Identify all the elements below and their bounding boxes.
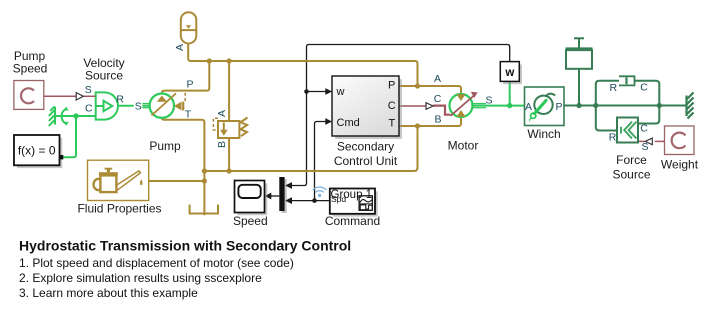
Pump Speed constant block — [14, 81, 44, 110]
wire loop left upper to damper R — [596, 81, 619, 106]
wire Command output to mux — [292, 200, 330, 202]
wire pump T down to tank — [162, 118, 205, 216]
svg-text:C: C — [640, 123, 648, 135]
node loop right junction — [657, 103, 662, 108]
oil can icon — [94, 171, 141, 192]
svg-text:Control Unit: Control Unit — [334, 154, 398, 168]
Speed scope — [235, 181, 268, 216]
wire mux output to Speed scope — [271, 195, 279, 197]
svg-text:A: A — [216, 110, 228, 117]
node pump P rail junction — [207, 58, 212, 63]
motor (variable-displacement) — [433, 92, 486, 117]
svg-text:C: C — [640, 82, 648, 94]
wire velocity source R to pump S — [118, 105, 150, 107]
svg-text:w: w — [504, 67, 514, 79]
svg-text:A: A — [434, 73, 441, 85]
svg-text:Winch: Winch — [527, 127, 560, 141]
node loop left junction — [593, 103, 598, 108]
node Cmd junction — [312, 198, 317, 203]
valve (pressure relief) — [218, 118, 248, 139]
svg-text:P: P — [555, 101, 562, 113]
wire SCU T output to motor B — [399, 117, 461, 126]
svg-text:S: S — [485, 95, 492, 107]
mass block — [566, 38, 593, 69]
wire W sensor to w input and mux — [292, 45, 510, 186]
svg-text:B: B — [434, 114, 441, 126]
svg-text:Speed: Speed — [233, 214, 268, 228]
node fluid properties junction — [202, 178, 207, 183]
wire motor S to winch A — [472, 105, 524, 107]
node w junction — [304, 89, 309, 94]
wire Cmd from Command to SCU — [315, 122, 326, 201]
damper — [619, 76, 635, 85]
wire valve B down to T rail — [228, 138, 230, 171]
svg-text:C: C — [388, 100, 396, 112]
wire loop left lower to force source R — [596, 106, 617, 131]
mux — [282, 179, 287, 213]
W sensor block — [500, 62, 522, 85]
svg-text:R: R — [609, 132, 617, 144]
node W shaft junction — [507, 103, 512, 108]
svg-text:A: A — [174, 44, 186, 51]
svg-text:Force: Force — [616, 153, 647, 167]
wire SCU P output to motor A — [399, 86, 461, 94]
node valve A rail junction — [227, 58, 232, 63]
node C junction — [73, 113, 78, 118]
svg-text:Cmd: Cmd — [337, 117, 360, 129]
pump (variable-displacement) — [141, 91, 186, 118]
Command signal editor — [330, 189, 378, 217]
svg-text:Hydrostatic Transmission with: Hydrostatic Transmission with Secondary … — [19, 237, 351, 253]
arrow into SCU Cmd — [325, 118, 332, 125]
tank (reservoir) — [190, 205, 218, 214]
node valve B rail junction — [227, 168, 232, 173]
node pump T rail junction — [202, 168, 207, 173]
svg-text:Weight: Weight — [661, 158, 699, 172]
svg-text:1. Plot speed and displacement: 1. Plot speed and displacement of motor … — [19, 256, 294, 270]
node motor T junction — [415, 123, 420, 128]
rotational reference (ground) — [49, 107, 66, 126]
svg-text:2. Explore simulation results: 2. Explore simulation results using ssce… — [19, 271, 262, 285]
Weight constant block — [665, 126, 695, 155]
svg-text:T: T — [388, 117, 395, 129]
svg-text:Pump: Pump — [149, 139, 181, 153]
node motor P junction — [415, 83, 420, 88]
svg-text:P: P — [388, 80, 395, 92]
accumulator — [181, 12, 197, 43]
f(x)=0 solver block — [14, 135, 63, 168]
svg-text:Speed: Speed — [13, 62, 48, 76]
svg-text:S: S — [85, 84, 92, 96]
svg-text:Source: Source — [85, 68, 123, 82]
wire weight to force source S — [655, 140, 665, 142]
node mass junction — [576, 103, 581, 108]
wire winch P rail to reference — [564, 105, 687, 107]
velocity source U1 — [96, 92, 118, 119]
svg-text:Command: Command — [325, 214, 380, 228]
arrowheads black — [265, 88, 332, 204]
wire w branch into SCU — [307, 91, 326, 93]
translational reference (ground) — [687, 93, 694, 119]
streaming badge — [313, 187, 326, 192]
arrow into SCU w — [325, 88, 332, 95]
svg-text:S: S — [135, 101, 142, 113]
Secondary Control Unit subsystem — [332, 76, 402, 139]
svg-text:3. Learn more about this examp: 3. Learn more about this example — [19, 286, 198, 300]
arrow into Speed scope — [265, 193, 272, 200]
svg-text:Motor: Motor — [448, 139, 479, 153]
wire valve A — [228, 61, 230, 121]
wire C node to reference and f(x)=0 — [56, 115, 96, 117]
svg-text:B: B — [216, 141, 228, 148]
winch block — [525, 87, 565, 126]
svg-text:C: C — [434, 93, 442, 105]
svg-text:f(x) = 0: f(x) = 0 — [18, 144, 56, 158]
svg-text:w: w — [336, 86, 345, 98]
svg-text:Fluid Properties: Fluid Properties — [77, 202, 161, 216]
wire SCU C output to motor C — [399, 105, 426, 107]
wire W sensor to shaft — [509, 81, 511, 105]
svg-text:R: R — [116, 93, 124, 105]
Fluid Properties block — [88, 160, 149, 200]
svg-text:T: T — [185, 109, 192, 121]
svg-text:Secondary: Secondary — [337, 140, 394, 154]
arrow into mux bottom — [285, 197, 292, 204]
svg-text:Spd: Spd — [331, 194, 346, 204]
wire Fluid Properties connection — [149, 180, 205, 182]
svg-text:R: R — [610, 82, 618, 94]
force source — [617, 118, 638, 143]
svg-text:A: A — [525, 101, 532, 113]
wire pump P up to rail — [162, 61, 210, 94]
svg-text:P: P — [186, 79, 193, 91]
wire damper C to loop right — [635, 81, 660, 124]
arrow into mux top — [285, 182, 292, 189]
wire pump speed to velocity source S — [44, 95, 76, 97]
svg-text:Source: Source — [612, 167, 650, 181]
svg-text:C: C — [85, 103, 93, 115]
svg-text:S: S — [641, 141, 648, 153]
wire accumulator down to top rail to motor P junction — [188, 44, 417, 87]
wire mass to rail — [578, 69, 580, 106]
wire T rail — [204, 126, 417, 171]
